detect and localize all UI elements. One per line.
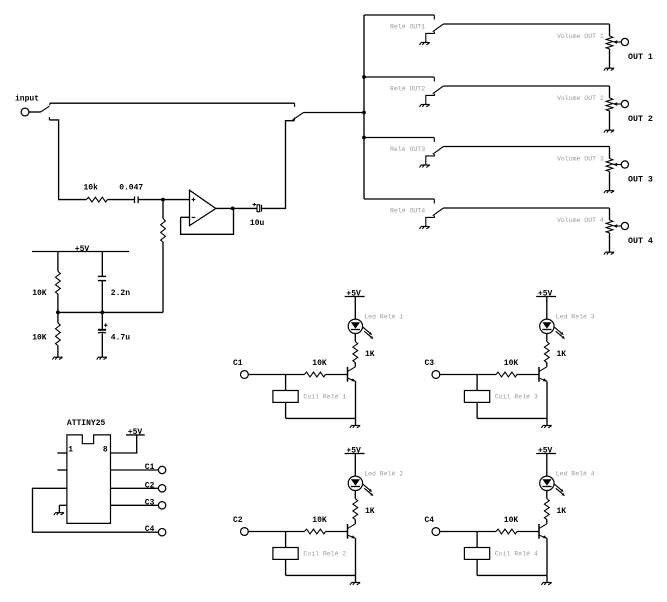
wire pin 8 to +5V — [111, 435, 137, 453]
LED D2 anode triangle — [351, 479, 360, 485]
capacitor C3 2.2n — [98, 276, 106, 280]
pin 1 stub — [57, 452, 67, 454]
wire coil 2 to bottom — [285, 559, 287, 575]
LED D1 cathode bar — [351, 329, 360, 331]
svg-text:Led Relé 4: Led Relé 4 — [556, 470, 595, 477]
op-amp - input sign — [192, 216, 196, 218]
switch relay 4 blade — [433, 208, 444, 216]
wire +5V rail — [32, 251, 129, 253]
label + polarity 10u — [253, 203, 256, 206]
connector C4 input — [432, 528, 440, 536]
wire +5V driver 1 underline — [345, 296, 365, 298]
svg-text:2.2n: 2.2n — [111, 289, 130, 298]
resistor 10K driver 4 — [496, 529, 517, 534]
svg-text:Coil Relé 2: Coil Relé 2 — [303, 550, 346, 557]
node bus amp junction — [362, 111, 366, 115]
svg-text:10K: 10K — [32, 334, 47, 343]
svg-text:10K: 10K — [504, 516, 519, 525]
wire C4cap to ground — [101, 333, 103, 357]
wire +5V driver 3 underline — [536, 296, 556, 298]
resistor 1K driver 4 — [544, 499, 549, 520]
wire relay 3 feed — [364, 137, 434, 139]
transistor Q1 collector — [348, 367, 355, 372]
pin 2 stub — [57, 469, 67, 471]
resistor 1K driver 2 — [353, 499, 358, 520]
switch relay 1 blade — [433, 24, 444, 32]
potentiometer VR4 Volume OUT 4 — [606, 220, 613, 233]
wire emitter 3 down — [546, 381, 548, 418]
wire coil tap 3 — [476, 375, 478, 391]
connector C3 output — [158, 502, 165, 509]
switch relay 1 feed contact — [433, 15, 435, 20]
node bus row3 junction — [362, 136, 366, 140]
LED D2 emission arrow 2 — [364, 488, 373, 496]
ground relay 1 — [420, 43, 430, 45]
wire coil tap 2 — [285, 532, 287, 548]
svg-text:8: 8 — [103, 445, 108, 454]
wire 1K to collector 2 — [354, 520, 356, 524]
wire coil tap 4 — [476, 532, 478, 548]
potentiometer VR2 Volume OUT 2 — [606, 98, 613, 111]
switch relay 3 blade — [433, 147, 444, 155]
ground driver 1 — [350, 426, 360, 428]
wire LED 1 to R — [354, 334, 356, 342]
connector C2 input — [241, 528, 249, 536]
wire relay 3 output — [443, 146, 609, 148]
wire coil tap 1 — [285, 375, 287, 391]
wire bottom rail 2 — [286, 574, 356, 576]
LED D4 circle — [540, 476, 554, 490]
transistor Q2 base bar — [347, 524, 349, 539]
wire C2 to bypass switch — [262, 121, 295, 209]
transistor Q3 emitter — [539, 378, 547, 381]
wire +5V to LED 3 — [546, 297, 548, 320]
svg-text:input: input — [15, 95, 39, 104]
wire ground stub 2 — [355, 575, 357, 582]
wire 10K to base 3 — [517, 374, 539, 376]
transistor Q1 base bar — [347, 367, 349, 382]
wire +5V to LED 2 — [354, 454, 356, 477]
svg-text:Relé OUT4: Relé OUT4 — [390, 208, 425, 215]
svg-text:C1: C1 — [145, 463, 155, 472]
connector OUT 4 jack — [621, 222, 628, 229]
wire pin 4 to ground — [58, 505, 60, 512]
transistor Q4 collector — [539, 524, 546, 529]
switch SW1b top contact — [294, 103, 296, 107]
wire pot 4 to ground — [609, 233, 611, 252]
wire pot 1 to ground — [609, 49, 611, 68]
LED D4 emission arrow 1 — [554, 484, 563, 492]
LED D2 emission arrow 1 — [363, 484, 372, 492]
svg-text:ATTINY25: ATTINY25 — [67, 419, 106, 428]
wire C3 to node D — [101, 281, 103, 313]
svg-text:+5V: +5V — [128, 428, 143, 437]
wire +5V IC underline — [126, 434, 145, 436]
svg-text:OUT 3: OUT 3 — [628, 175, 653, 184]
svg-text:Relé OUT3: Relé OUT3 — [390, 146, 425, 153]
pin 4 stub — [59, 504, 67, 506]
wire +5V to LED 1 — [354, 297, 356, 320]
pot VR2 wiper arrow — [613, 102, 622, 105]
svg-text:C2: C2 — [145, 481, 155, 490]
node C divider junction — [56, 311, 60, 315]
wire node A to op-amp + — [163, 199, 190, 201]
ground IC pin4 — [54, 513, 64, 515]
wire divider mid rail — [58, 311, 163, 313]
wire relay 1 output — [443, 23, 609, 25]
wire R4 to ground — [57, 346, 59, 357]
LED D3 emission arrow 2 — [556, 331, 565, 339]
transistor Q3 base bar — [538, 367, 540, 382]
svg-text:Relé OUT1: Relé OUT1 — [390, 24, 425, 31]
transistor Q3 collector — [539, 367, 546, 372]
wire top bypass bus — [50, 102, 295, 104]
svg-text:Led Relé 1: Led Relé 1 — [364, 313, 403, 320]
svg-text:Led Relé 2: Led Relé 2 — [364, 470, 403, 477]
wire node A down to bias resistor — [162, 200, 164, 219]
wire bottom rail 4 — [477, 574, 547, 576]
wire pin 7 to C1 — [111, 469, 159, 471]
ground relay 2 — [420, 105, 430, 107]
svg-text:10K: 10K — [32, 289, 47, 298]
ground divider right — [97, 357, 107, 359]
relay coil 2 box — [273, 548, 298, 560]
switch relay 2 pivot bracket — [426, 94, 435, 105]
wire switch to amp path — [49, 120, 86, 200]
node D junction — [100, 311, 104, 315]
LED D1 emission arrow 1 — [363, 327, 372, 335]
svg-text:1K: 1K — [557, 507, 567, 516]
LED D3 cathode bar — [542, 329, 551, 331]
switch relay 3 pivot bracket — [426, 154, 435, 165]
wire coil 3 to bottom — [476, 402, 478, 418]
op-amp U1 buffer — [190, 190, 216, 225]
wire op-amp output — [216, 207, 257, 209]
transistor Q4 emitter — [539, 535, 547, 538]
svg-text:C4: C4 — [425, 516, 435, 525]
wire R3 to node C — [57, 294, 59, 312]
ground driver 4 — [541, 583, 551, 585]
wire C1cap to node A — [138, 199, 163, 201]
resistor R1 10k — [86, 197, 107, 202]
wire relay 4 to pot — [609, 208, 611, 220]
wire LED 3 to R — [546, 334, 548, 342]
wire feedback loop — [181, 208, 234, 234]
wire ground stub 4 — [546, 575, 548, 582]
wire bottom rail 1 — [286, 417, 356, 419]
wire input jack to switch — [29, 111, 41, 113]
LED D2 circle — [348, 476, 362, 490]
transistor Q4 base bar — [538, 524, 540, 539]
ground pot 2 — [604, 130, 614, 132]
capacitor C1 0.047 — [135, 196, 139, 203]
wire pin 5 to C3 — [111, 504, 159, 506]
node bus row2 junction — [362, 75, 366, 79]
LED D1 circle — [348, 319, 362, 333]
ground relay 4 — [420, 227, 430, 229]
resistor 10K driver 1 — [304, 372, 325, 377]
IC U2 ATTINY25 body — [67, 435, 111, 524]
wire rail to C3cap — [101, 252, 103, 277]
pot VR4 wiper arrow — [613, 224, 622, 227]
op-amp + input sign — [192, 198, 196, 202]
ground driver 3 — [541, 426, 551, 428]
svg-text:Coil Relé 3: Coil Relé 3 — [495, 393, 538, 400]
wire bottom rail 3 — [477, 417, 547, 419]
svg-text:+5V: +5V — [75, 245, 90, 254]
wire bias resistor to divider mid — [162, 242, 164, 312]
svg-text:Volume OUT 1: Volume OUT 1 — [557, 33, 604, 40]
svg-text:4.7u: 4.7u — [111, 334, 130, 343]
wire C3 to 10K — [440, 374, 496, 376]
wire pot 3 to ground — [609, 171, 611, 190]
LED D3 emission arrow 1 — [554, 327, 563, 335]
ground relay 3 — [420, 165, 430, 167]
ground driver 2 — [350, 583, 360, 585]
svg-text:10K: 10K — [312, 359, 327, 368]
wire coil 1 to bottom — [285, 402, 287, 418]
switch relay 4 feed contact — [433, 199, 435, 204]
wire LED 4 to R — [546, 491, 548, 499]
LED D2 cathode bar — [351, 486, 360, 488]
LED D4 cathode bar — [542, 486, 551, 488]
svg-text:Volume OUT 2: Volume OUT 2 — [557, 95, 604, 102]
svg-text:Coil Relé 4: Coil Relé 4 — [495, 550, 538, 557]
wire emitter 2 down — [355, 538, 357, 575]
wire 1K to collector 4 — [546, 520, 548, 524]
wire 10K to base 2 — [326, 531, 348, 533]
wire 1K to collector 3 — [546, 363, 548, 367]
wire relay 4 feed — [364, 198, 434, 200]
connector OUT 3 jack — [621, 161, 628, 168]
wire pin 6 to C2 — [111, 487, 159, 489]
capacitor C4 4.7u electrolytic — [98, 329, 106, 333]
svg-text:Relé OUT2: Relé OUT2 — [390, 86, 425, 93]
connector OUT 2 jack — [621, 100, 628, 107]
svg-text:Volume OUT 4: Volume OUT 4 — [557, 217, 604, 224]
resistor 1K driver 1 — [353, 342, 358, 363]
wire +5V to LED 4 — [546, 454, 548, 477]
wire node C to R4 — [57, 312, 59, 322]
LED D3 circle — [540, 319, 554, 333]
ground pot 1 — [604, 68, 614, 70]
wire relay 2 to pot — [609, 86, 611, 98]
wire rail to R3 — [57, 252, 59, 272]
wire +5V driver 4 underline — [536, 453, 556, 455]
svg-text:C4: C4 — [145, 525, 155, 534]
wire switch to bus — [304, 112, 365, 114]
LED D4 anode triangle — [542, 479, 551, 485]
resistor R4 10K lower — [56, 323, 61, 346]
svg-text:C3: C3 — [425, 359, 435, 368]
connector C4 output — [158, 529, 165, 536]
potentiometer VR3 Volume OUT 3 — [606, 158, 613, 171]
resistor R3 10K upper — [56, 271, 61, 294]
wire relay 4 output — [443, 207, 609, 209]
connector C1 output — [158, 466, 165, 473]
wire 10K to base 1 — [326, 374, 348, 376]
resistor 1K driver 3 — [544, 342, 549, 363]
wire +5V driver 2 underline — [345, 453, 365, 455]
wire node D to C4cap — [101, 312, 103, 329]
switch SW1b bottom contact — [294, 118, 296, 121]
wire ground stub 3 — [546, 418, 548, 425]
wire relay 2 feed — [364, 76, 434, 78]
node B output junction — [231, 207, 235, 211]
svg-text:10K: 10K — [312, 516, 327, 525]
wire pin 3 to C4 line — [33, 488, 159, 532]
LED D1 emission arrow 2 — [364, 331, 373, 339]
wire 1K to collector 1 — [354, 363, 356, 367]
capacitor C2 10u electrolytic — [257, 205, 262, 212]
svg-text:C2: C2 — [233, 516, 243, 525]
relay coil 4 box — [464, 548, 489, 560]
transistor Q1 emitter — [348, 378, 356, 381]
ground divider left — [52, 357, 62, 359]
switch SW1b blade — [293, 113, 304, 120]
wire pot 2 to ground — [609, 111, 611, 130]
switch relay 2 feed contact — [433, 77, 435, 82]
svg-text:10k: 10k — [84, 183, 99, 192]
switch relay 1 pivot bracket — [426, 32, 435, 43]
svg-text:Led Relé 3: Led Relé 3 — [556, 313, 595, 320]
switch SW1a input select blade — [41, 106, 50, 112]
wire 10K to base 4 — [517, 531, 539, 533]
wire relay 2 output — [443, 85, 609, 87]
svg-text:10K: 10K — [504, 359, 519, 368]
svg-text:10u: 10u — [250, 219, 265, 228]
LED D1 anode triangle — [351, 322, 360, 328]
label + polarity 4.7u — [104, 323, 108, 327]
switch relay 4 pivot bracket — [426, 216, 435, 227]
connector C2 output — [158, 485, 165, 492]
wire emitter 4 down — [546, 538, 548, 575]
svg-text:Volume OUT 3: Volume OUT 3 — [557, 156, 604, 163]
wire relay 1 feed — [364, 14, 434, 16]
connector OUT 1 jack — [621, 38, 628, 45]
svg-text:OUT 1: OUT 1 — [628, 53, 653, 62]
svg-text:C1: C1 — [233, 359, 243, 368]
switch relay 3 feed contact — [433, 138, 435, 143]
wire coil 4 to bottom — [476, 559, 478, 575]
ground pot 3 — [604, 191, 614, 193]
wire relay 1 to pot — [609, 24, 611, 36]
svg-text:1: 1 — [68, 445, 73, 454]
wire R1 to C1cap — [107, 199, 134, 201]
wire feedback minus input — [181, 216, 190, 218]
transistor Q2 collector — [348, 524, 355, 529]
LED D3 anode triangle — [542, 322, 551, 328]
connector C1 input — [241, 371, 249, 379]
wire C2 to 10K — [248, 531, 304, 533]
wire emitter 1 down — [355, 381, 357, 418]
pot VR1 wiper arrow — [613, 40, 622, 43]
relay coil 1 box — [273, 391, 298, 403]
wire ground stub 1 — [355, 418, 357, 425]
connector C3 input — [432, 371, 440, 379]
svg-text:C3: C3 — [145, 499, 155, 508]
transistor Q2 emitter — [348, 535, 356, 538]
relay coil 3 box — [464, 391, 489, 403]
LED D4 emission arrow 2 — [556, 488, 565, 496]
potentiometer VR1 Volume OUT 1 — [606, 36, 613, 49]
wire relay 3 to pot — [609, 147, 611, 159]
wire C1 to 10K — [248, 374, 304, 376]
resistor R2 bias — [161, 219, 166, 243]
resistor 10K driver 3 — [496, 372, 517, 377]
switch relay 2 blade — [433, 86, 444, 94]
switch SW1a top contact — [49, 103, 51, 105]
wire signal bus vertical — [363, 15, 365, 199]
svg-text:1K: 1K — [365, 507, 375, 516]
node A junction — [161, 198, 165, 202]
svg-text:OUT 4: OUT 4 — [628, 237, 653, 246]
switch SW1a bottom contact — [48, 117, 50, 120]
svg-text:OUT 2: OUT 2 — [628, 115, 653, 124]
svg-text:1K: 1K — [365, 350, 375, 359]
wire LED 2 to R — [354, 491, 356, 499]
resistor 10K driver 2 — [304, 529, 325, 534]
svg-text:0.047: 0.047 — [119, 183, 143, 192]
connector J1 input jack — [21, 108, 29, 116]
wire C4 to 10K — [440, 531, 496, 533]
pot VR3 wiper arrow — [613, 163, 622, 166]
ground pot 4 — [604, 252, 614, 254]
svg-text:1K: 1K — [557, 350, 567, 359]
svg-text:Coil Relé 1: Coil Relé 1 — [303, 393, 346, 400]
